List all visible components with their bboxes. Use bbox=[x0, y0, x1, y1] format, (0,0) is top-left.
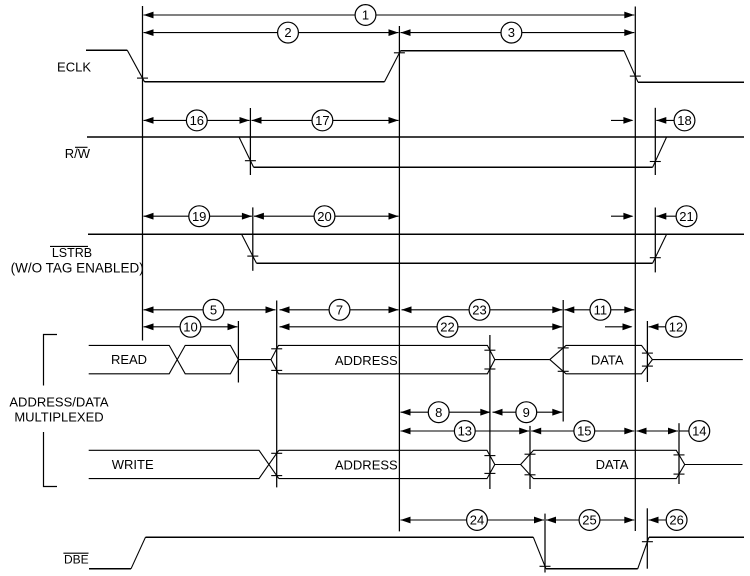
wire DBE rising edge 1 bbox=[131, 537, 146, 569]
dimension arrow 10 bbox=[144, 316, 238, 337]
svg-text:DATA: DATA bbox=[596, 457, 629, 472]
svg-text:7: 7 bbox=[336, 302, 343, 317]
svg-text:12: 12 bbox=[669, 319, 683, 334]
wire READ to ADDRESS bbox=[238, 359, 271, 361]
svg-text:(W/O TAG ENABLED): (W/O TAG ENABLED) bbox=[11, 260, 144, 275]
reference line R/W transition right bbox=[654, 108, 656, 175]
signal label R/W with overline bbox=[65, 146, 91, 161]
dimension arrow 16 bbox=[144, 110, 250, 131]
reference line write data bus end bbox=[678, 423, 680, 484]
bus READ bottom outline bbox=[89, 360, 239, 374]
svg-text:LSTRB: LSTRB bbox=[52, 246, 92, 260]
arrow to ECLK fall right (R/W row) bbox=[611, 117, 633, 124]
wire after DATA (read) bbox=[652, 359, 742, 361]
reference line READ bus end bbox=[237, 321, 239, 383]
dimension arrow 18 bbox=[656, 110, 695, 131]
vertical reference line at ECLK rise (mid) bbox=[398, 26, 400, 531]
reference line read data bus end bbox=[646, 321, 648, 382]
wire R/W high level bbox=[87, 136, 744, 138]
svg-text:ADDRESS: ADDRESS bbox=[335, 353, 398, 368]
tick read-data open top bbox=[558, 347, 569, 349]
bus WRITE bottom outline bbox=[89, 450, 279, 478]
svg-text:26: 26 bbox=[669, 513, 683, 528]
svg-text:READ: READ bbox=[111, 352, 147, 367]
tick address open bottom bbox=[271, 369, 282, 371]
svg-text:21: 21 bbox=[679, 209, 693, 224]
dimension arrow 7 bbox=[280, 299, 399, 320]
svg-text:MULTIPLEXED: MULTIPLEXED bbox=[14, 410, 103, 425]
dimension arrow 11 bbox=[564, 299, 634, 320]
reference line LSTRB transition right bbox=[654, 208, 656, 273]
reference line DBE fall bbox=[544, 514, 546, 573]
tick write-address close top bbox=[484, 455, 495, 457]
reference line address bus start bbox=[276, 301, 278, 488]
tick LSTRB rise bbox=[650, 257, 661, 259]
wire ECLK high segment 2 bbox=[401, 50, 625, 52]
dimension arrow 5 bbox=[144, 299, 276, 320]
dimension arrow 1 bbox=[144, 5, 635, 26]
tick ECLK rise bbox=[394, 52, 405, 54]
svg-text:5: 5 bbox=[210, 302, 217, 317]
svg-text:1: 1 bbox=[362, 8, 369, 23]
dimension arrow 13 bbox=[401, 421, 530, 442]
svg-text:ADDRESS/DATA: ADDRESS/DATA bbox=[9, 394, 109, 409]
wire after DATA (write) bbox=[685, 464, 743, 466]
tick write-data close bottom bbox=[674, 473, 685, 475]
bus DATA (read) outline bbox=[550, 345, 653, 373]
dimension arrow 17 bbox=[252, 110, 399, 131]
wire ECLK falling edge 2 bbox=[624, 51, 638, 82]
svg-text:13: 13 bbox=[458, 424, 472, 439]
wire R/W rising edge bbox=[653, 137, 667, 167]
wire R/W falling edge bbox=[239, 137, 254, 167]
tick address close bottom bbox=[484, 368, 495, 370]
svg-text:3: 3 bbox=[508, 25, 515, 40]
bus DATA (write) outline bbox=[521, 450, 685, 478]
dimension arrow 19 bbox=[144, 206, 252, 227]
svg-text:14: 14 bbox=[692, 424, 706, 439]
bracket ADDRESS/DATA group bbox=[44, 335, 58, 487]
wire ECLK rising edge bbox=[385, 51, 401, 82]
bus READ top outline bbox=[89, 345, 239, 359]
tick DBE fall bbox=[540, 565, 551, 567]
tick read-data open bottom bbox=[558, 370, 569, 372]
svg-text:19: 19 bbox=[192, 209, 206, 224]
svg-text:WRITE: WRITE bbox=[112, 457, 154, 472]
dimension arrow 25 bbox=[546, 510, 634, 531]
svg-text:R/W: R/W bbox=[65, 146, 91, 161]
svg-text:22: 22 bbox=[440, 319, 454, 334]
arrow to ECLK fall right (LSTRB row) bbox=[611, 213, 633, 220]
tick LSTRB fall bbox=[247, 255, 258, 257]
svg-text:8: 8 bbox=[435, 405, 442, 420]
dimension arrow 3 bbox=[401, 22, 635, 43]
tick write-X bottom bbox=[271, 475, 282, 477]
bus ADDRESS (write) outline bbox=[279, 450, 495, 478]
tick ECLK fall 2 bbox=[630, 75, 641, 77]
tick write-address close bottom bbox=[484, 472, 495, 474]
svg-text:ADDRESS: ADDRESS bbox=[335, 457, 398, 472]
wire DBE rising edge 2 bbox=[638, 537, 649, 569]
tick write-X top bbox=[271, 452, 282, 454]
svg-text:23: 23 bbox=[472, 302, 486, 317]
wire DBE falling edge bbox=[533, 537, 546, 569]
svg-text:DBE: DBE bbox=[64, 552, 89, 566]
tick DBE rise bbox=[642, 541, 653, 543]
wire ADDRESS to DATA (write) bbox=[495, 464, 521, 466]
wire ECLK low segment bbox=[145, 81, 385, 83]
wire R/W low level bbox=[254, 166, 653, 168]
svg-text:24: 24 bbox=[470, 513, 484, 528]
reference line DBE rise bbox=[646, 508, 648, 568]
svg-text:16: 16 bbox=[190, 113, 204, 128]
svg-text:10: 10 bbox=[183, 319, 197, 334]
tick write-data open bottom bbox=[525, 474, 536, 476]
dimension arrow 23 bbox=[402, 299, 563, 320]
tick read-data close bottom bbox=[642, 365, 653, 367]
vertical reference line at ECLK fall (right) bbox=[634, 7, 636, 532]
wire LSTRB rising edge bbox=[653, 234, 667, 263]
dimension arrow 15 bbox=[531, 421, 634, 442]
dimension arrow 14 bbox=[637, 421, 710, 442]
wire DBE high segment 2 bbox=[649, 536, 744, 538]
svg-text:DATA: DATA bbox=[591, 353, 624, 368]
tick write-data open top bbox=[525, 453, 536, 455]
wire DBE low segment 2 bbox=[546, 568, 638, 570]
dimension arrow 8 bbox=[401, 402, 491, 423]
svg-text:18: 18 bbox=[677, 113, 691, 128]
wire ECLK high segment 1 bbox=[86, 49, 127, 51]
dimension arrow 22 bbox=[280, 316, 563, 337]
svg-text:2: 2 bbox=[284, 25, 291, 40]
svg-text:25: 25 bbox=[582, 513, 596, 528]
tick address open top bbox=[271, 348, 282, 350]
svg-text:11: 11 bbox=[594, 302, 608, 317]
tick ECLK fall 1 bbox=[137, 77, 148, 79]
svg-text:ECLK: ECLK bbox=[57, 60, 91, 75]
tick write-data close top bbox=[674, 454, 685, 456]
reference line write data bus start bbox=[529, 426, 531, 489]
wire ECLK low segment 2 bbox=[638, 81, 744, 83]
bus ADDRESS (read) outline bbox=[271, 345, 495, 373]
dimension arrow 2 bbox=[144, 22, 399, 43]
wire ADDRESS to DATA (read) bbox=[495, 359, 550, 361]
signal label DBE with overline bbox=[63, 552, 88, 566]
wire ECLK falling edge 1 bbox=[127, 50, 144, 82]
wire LSTRB low level bbox=[257, 262, 653, 264]
signal label LSTRB with overline bbox=[50, 246, 92, 260]
reference line R/W transition left bbox=[249, 108, 251, 175]
dimension arrow 12 bbox=[649, 316, 687, 337]
dimension arrow 26 bbox=[649, 510, 687, 531]
wire LSTRB high level bbox=[88, 233, 744, 235]
bus WRITE top outline bbox=[89, 450, 279, 478]
tick R/W rise bbox=[650, 161, 661, 163]
dimension arrow 20 bbox=[254, 206, 399, 227]
wire DBE high segment 1 bbox=[146, 536, 534, 538]
dimension arrow 9 bbox=[493, 402, 563, 423]
tick R/W fall bbox=[245, 160, 256, 162]
wire DBE low segment 1 bbox=[89, 568, 131, 570]
wire LSTRB falling edge bbox=[242, 234, 257, 263]
dimension arrow 21 bbox=[656, 206, 697, 227]
reference line LSTRB transition left bbox=[252, 207, 254, 270]
svg-text:17: 17 bbox=[315, 113, 329, 128]
dimension arrow 24 bbox=[401, 510, 545, 531]
reference line read data bus start bbox=[562, 300, 564, 422]
tick address close top bbox=[484, 349, 495, 351]
reference line address bus end bbox=[489, 335, 491, 489]
vertical reference line at ECLK fall (left) bbox=[142, 6, 144, 341]
arrow to ECLK fall right (read data row) bbox=[605, 323, 633, 330]
svg-text:9: 9 bbox=[523, 405, 530, 420]
svg-text:15: 15 bbox=[577, 424, 591, 439]
svg-text:20: 20 bbox=[317, 209, 331, 224]
tick read-data close top bbox=[642, 352, 653, 354]
